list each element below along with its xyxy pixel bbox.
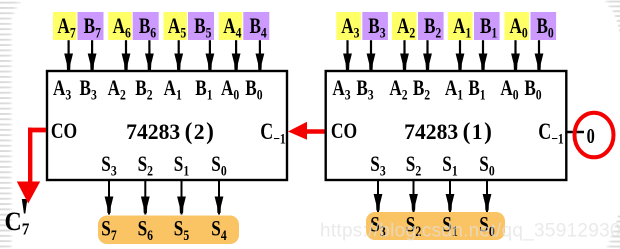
svg-text:C7: C7: [5, 208, 30, 239]
svg-text:CO: CO: [331, 119, 357, 144]
svg-text:0: 0: [587, 125, 595, 148]
svg-text:74283(2): 74283(2): [126, 119, 214, 145]
svg-text:CO: CO: [51, 119, 77, 144]
svg-text:https://blog.csdn.net/qq_35912: https://blog.csdn.net/qq_35912930_: [320, 221, 620, 242]
svg-text:74283(1): 74283(1): [404, 119, 492, 145]
